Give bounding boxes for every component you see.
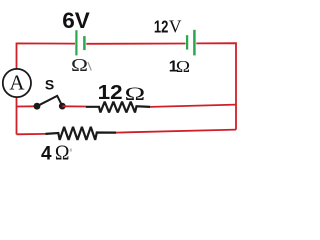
- wire: left edge below ammeter to bottom-left corner: [16, 97, 18, 134]
- svg-text:12: 12: [98, 82, 123, 104]
- switch S left contact dot: [34, 103, 41, 110]
- ammeter A circle: [3, 69, 31, 97]
- resistor R1 12 ohm (leads + zigzag): [86, 102, 151, 113]
- wire: resistor R1 to right edge: [150, 105, 236, 107]
- svg-text:Ω: Ω: [71, 55, 88, 75]
- wire: top edge middle segment (between batteries): [86, 43, 185, 45]
- svg-text:Ω: Ω: [125, 84, 146, 105]
- svg-text:Ω: Ω: [55, 141, 70, 162]
- wire: switch to resistor R1: [62, 105, 85, 107]
- resistor R2 4 ohm (leads + zigzag): [46, 127, 117, 140]
- battery B1 6V short plate: [83, 36, 86, 50]
- wire: top edge right segment + right edge down: [196, 43, 236, 129]
- svg-text:V: V: [169, 17, 182, 37]
- battery B1 6V long plate: [75, 30, 77, 55]
- svg-text:6V: 6V: [62, 8, 90, 33]
- switch S right contact dot: [59, 103, 66, 110]
- svg-text:A: A: [9, 70, 25, 94]
- switch S blade: [37, 96, 62, 106]
- battery B2 12V long plate: [193, 30, 196, 56]
- stray faint mark right of 4 ohm label: [70, 149, 72, 152]
- battery B2 12V short plate: [186, 35, 188, 49]
- svg-text:4: 4: [41, 143, 52, 162]
- svg-text:S: S: [45, 77, 54, 93]
- wire: middle branch from left edge to switch: [17, 105, 37, 107]
- svg-text:12: 12: [154, 17, 169, 37]
- wire: bottom-left corner to resistor R2: [17, 133, 46, 135]
- wire: top edge left segment (to 6V battery): [17, 43, 76, 68]
- svg-text:Ω: Ω: [176, 57, 190, 76]
- stray diagonal mark after omega: [88, 62, 91, 71]
- wire: resistor R2 to bottom-right corner: [116, 130, 236, 133]
